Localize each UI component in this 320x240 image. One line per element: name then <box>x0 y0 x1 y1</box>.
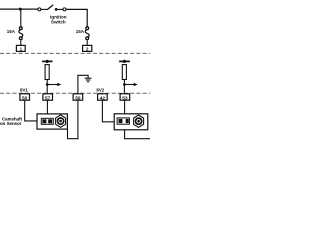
wire: pin 50 to camshaft sensor <box>25 100 37 121</box>
pin box 50 <box>20 94 30 102</box>
camshaft position sensor B1 <box>37 114 67 129</box>
svg-text:on Sensor: on Sensor <box>0 121 22 126</box>
wire: ground run from pin 59 <box>78 75 88 94</box>
svg-text:15A: 15A <box>7 29 16 34</box>
wire: between left contact and blade <box>41 8 47 10</box>
wire: pin 53 to crankshaft sensor <box>124 100 126 113</box>
pin box 2 <box>83 45 92 51</box>
svg-text:1: 1 <box>20 47 23 52</box>
wire: R2 down to pin 53 <box>123 80 125 94</box>
fuse F2 15A <box>85 27 89 45</box>
wire: drop to fuse 1 <box>20 9 22 27</box>
ignition switch contact left <box>38 8 41 11</box>
svg-text:8V1: 8V1 <box>20 87 28 92</box>
supply rail tick right <box>119 60 130 62</box>
supply rail tick left <box>42 60 52 62</box>
wire: camshaft sensor return <box>68 129 79 139</box>
wire: pin 42 to crankshaft sensor <box>102 100 114 121</box>
resistor R1 <box>45 65 49 80</box>
node: branch dot right <box>123 83 126 86</box>
switch blade <box>47 5 53 10</box>
pin box 53 <box>120 94 130 102</box>
wire: signal branch arrow left <box>47 84 58 86</box>
ground <box>85 78 92 82</box>
wire: pin 57 to camshaft sensor <box>46 100 48 114</box>
wire: switch to right drop <box>66 9 87 27</box>
wire: R1 down to pin 57 <box>46 80 48 94</box>
wire: pin 59 down to sensor return <box>77 100 79 138</box>
node: switch mid dot <box>55 8 58 11</box>
node: junction on top feed <box>19 8 22 11</box>
pin box 42 <box>98 94 108 102</box>
wire: battery feed horizontal top <box>0 8 38 10</box>
module boundary dashed line lower <box>0 92 150 94</box>
node: branch dot left <box>46 83 49 86</box>
fuse F1 15A <box>19 27 23 45</box>
wire: signal branch arrow right <box>124 84 134 86</box>
pin box 1 <box>16 45 25 51</box>
pin box 59 <box>73 94 83 102</box>
resistor R2 <box>122 65 126 80</box>
module boundary dashed line upper <box>0 52 150 54</box>
node: rail dot right <box>123 60 126 63</box>
svg-text:8V2: 8V2 <box>96 87 104 92</box>
node: rail dot left <box>46 60 49 63</box>
svg-text:2: 2 <box>86 47 89 52</box>
svg-text:Switch: Switch <box>51 19 66 24</box>
ignition switch contact right <box>63 8 66 11</box>
pin box 57 <box>43 94 53 102</box>
svg-text:15A: 15A <box>76 29 85 34</box>
crankshaft position sensor B2 <box>114 114 148 130</box>
wire: crankshaft sensor return <box>125 130 150 139</box>
wire: mid segment <box>56 8 63 10</box>
